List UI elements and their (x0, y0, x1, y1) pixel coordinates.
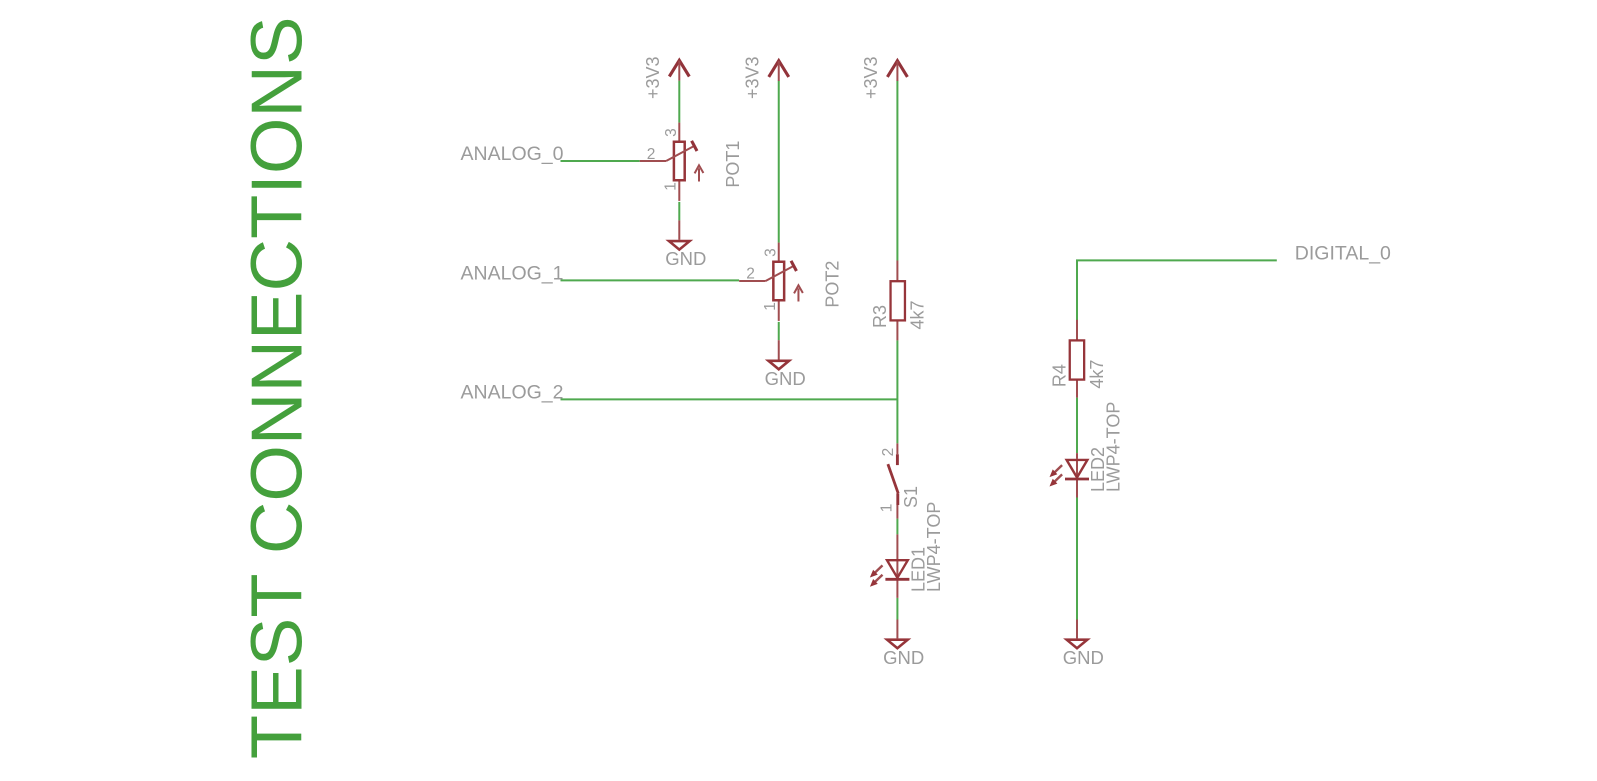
svg-text:GND: GND (883, 647, 924, 668)
svg-text:2: 2 (746, 265, 755, 282)
svg-text:POT1: POT1 (723, 141, 743, 188)
svg-text:S1: S1 (901, 486, 921, 508)
svg-text:2: 2 (880, 448, 897, 457)
svg-text:3: 3 (762, 248, 779, 257)
svg-text:DIGITAL_0: DIGITAL_0 (1295, 242, 1391, 264)
svg-text:ANALOG_1: ANALOG_1 (461, 262, 564, 284)
svg-text:ANALOG_2: ANALOG_2 (461, 381, 564, 403)
svg-text:3: 3 (663, 128, 680, 137)
svg-text:R3: R3 (870, 305, 890, 328)
svg-text:POT2: POT2 (823, 261, 843, 308)
svg-text:GND: GND (1063, 647, 1104, 668)
svg-text:1: 1 (879, 504, 896, 513)
svg-text:LWP4-TOP: LWP4-TOP (1104, 402, 1124, 492)
svg-text:1: 1 (762, 302, 779, 311)
svg-text:GND: GND (665, 248, 706, 269)
svg-text:+3V3: +3V3 (743, 56, 763, 99)
svg-text:4k7: 4k7 (1087, 360, 1107, 389)
svg-text:GND: GND (765, 368, 806, 389)
svg-text:1: 1 (662, 182, 679, 191)
svg-text:ANALOG_0: ANALOG_0 (461, 143, 564, 165)
svg-text:TEST CONNECTIONS: TEST CONNECTIONS (237, 16, 318, 759)
svg-text:R4: R4 (1049, 364, 1069, 387)
svg-text:2: 2 (647, 146, 656, 163)
svg-text:LWP4-TOP: LWP4-TOP (924, 502, 944, 592)
svg-text:+3V3: +3V3 (643, 56, 663, 99)
svg-text:4k7: 4k7 (907, 300, 927, 329)
svg-text:+3V3: +3V3 (861, 56, 881, 99)
